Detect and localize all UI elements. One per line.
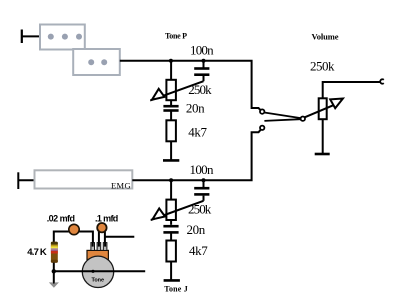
- ground bar volume: [315, 153, 330, 156]
- tone pot body (orange): [87, 250, 108, 259]
- capacitor 20n J: [163, 220, 178, 241]
- svg-text:250k: 250k: [310, 58, 335, 73]
- node junction tone P pot: [169, 59, 173, 63]
- potentiometer 250k Tone P body: [166, 80, 176, 100]
- wire volume pot to ground: [322, 119, 324, 153]
- wire pot casing ground: [54, 270, 145, 272]
- svg-text:Tone P: Tone P: [165, 32, 187, 41]
- label 20n (P): [186, 101, 205, 116]
- potentiometer 250k Tone J body: [166, 200, 176, 220]
- capacitor 100n P: [194, 61, 209, 81]
- pickup coil B (split P pickup, 2 poles): [73, 49, 120, 75]
- label Tone J: [164, 285, 188, 294]
- wire ground to EMG: [18, 179, 35, 181]
- tone pot casing: [82, 256, 113, 287]
- svg-text:EMG: EMG: [111, 180, 131, 190]
- ground bar tone J: [164, 279, 180, 282]
- EMG pickup: [35, 170, 133, 190]
- wiper wire tone J: [151, 201, 204, 220]
- label .1 mfd: [95, 214, 118, 224]
- potentiometer 250k volume body: [319, 98, 327, 119]
- capacitor 20n P: [163, 100, 178, 120]
- label Volume: [312, 32, 339, 42]
- disc capacitor .1 mfd leads: [99, 231, 105, 247]
- switch throw line upper: [264, 113, 300, 119]
- wire 4k7 P to ground: [170, 141, 172, 159]
- wiper wire tone P: [150, 81, 203, 100]
- svg-text:20n: 20n: [186, 101, 205, 116]
- svg-text:100n: 100n: [190, 42, 214, 57]
- resistor 4.7K body: [51, 242, 58, 263]
- switch contact lower: [260, 126, 264, 130]
- solder dot on pot casing: [91, 270, 94, 273]
- svg-text:4k7: 4k7: [188, 124, 207, 139]
- output jack tip: [380, 79, 384, 83]
- label 100n (P): [190, 42, 214, 57]
- ground bar tone P: [163, 159, 179, 162]
- label 100n (J): [190, 162, 215, 177]
- wire resistor 4.7K bottom to ground junction: [53, 263, 55, 272]
- disc capacitor .02 mfd: [69, 224, 79, 234]
- switch contact upper: [260, 109, 264, 113]
- label 250k (tone J): [188, 202, 212, 217]
- lug right: [103, 243, 107, 251]
- svg-text:100n: 100n: [190, 162, 215, 177]
- label 250k (tone P): [188, 82, 212, 97]
- svg-text:Tone: Tone: [92, 278, 105, 284]
- label 20n (J): [187, 222, 206, 237]
- wire EMG to switch bus: [132, 130, 260, 181]
- svg-text:Tone J: Tone J: [164, 285, 188, 294]
- svg-text:4.7 K: 4.7 K: [27, 247, 47, 258]
- capacitor 100n J: [194, 180, 209, 201]
- wiper arrow tone J: [153, 208, 166, 219]
- node junction 100n P: [202, 59, 206, 63]
- label 4k7 (J): [189, 243, 208, 258]
- label .02 mfd: [47, 214, 75, 224]
- svg-text:250k: 250k: [188, 82, 212, 97]
- resistor 4k7 P: [166, 120, 176, 141]
- wire volume pot to output jack: [323, 82, 381, 98]
- pickup coil A (split P pickup, 3 poles): [40, 25, 85, 50]
- wire 4k7 J to ground: [170, 262, 172, 280]
- wire tone P pot lead: [170, 61, 172, 81]
- label Tone P: [165, 32, 187, 41]
- node junction 100n J: [202, 178, 206, 182]
- ground terminal (EMG pickup): [17, 172, 19, 189]
- resistor 4k7 J: [166, 241, 176, 262]
- wire junction to ground arrow: [53, 271, 55, 284]
- lug middle: [97, 243, 101, 251]
- wiper wire volume (from switch pole): [305, 104, 336, 117]
- switch pole: [301, 117, 305, 121]
- disc capacitor .1 mfd: [97, 223, 106, 232]
- svg-text:4k7: 4k7: [189, 243, 208, 258]
- node junction tone J pot: [169, 178, 173, 182]
- label 4.7 K: [27, 247, 47, 258]
- ground terminal (neck pickup): [21, 30, 23, 44]
- wire tone J pot lead: [170, 180, 172, 200]
- switch throw line lower: [264, 119, 300, 121]
- svg-text:Volume: Volume: [312, 32, 339, 42]
- ground arrow (gray): [50, 283, 58, 287]
- svg-text:.1 mfd: .1 mfd: [95, 214, 118, 224]
- label 4k7 (P): [188, 124, 207, 139]
- wire P pickup to switch bus: [120, 61, 261, 110]
- lug left: [91, 243, 95, 251]
- label 250k (volume): [310, 58, 335, 73]
- wiper arrow volume: [330, 99, 343, 109]
- wire resistor 4.7K top to left lug: [54, 232, 93, 244]
- wire ground to pickup coil A: [22, 35, 41, 37]
- svg-text:250k: 250k: [188, 202, 212, 217]
- svg-text:.02 mfd: .02 mfd: [47, 214, 75, 224]
- svg-text:20n: 20n: [187, 222, 206, 237]
- node ground junction: [52, 269, 56, 273]
- wire right lug to output: [105, 236, 134, 238]
- wiper arrow tone P: [152, 89, 165, 100]
